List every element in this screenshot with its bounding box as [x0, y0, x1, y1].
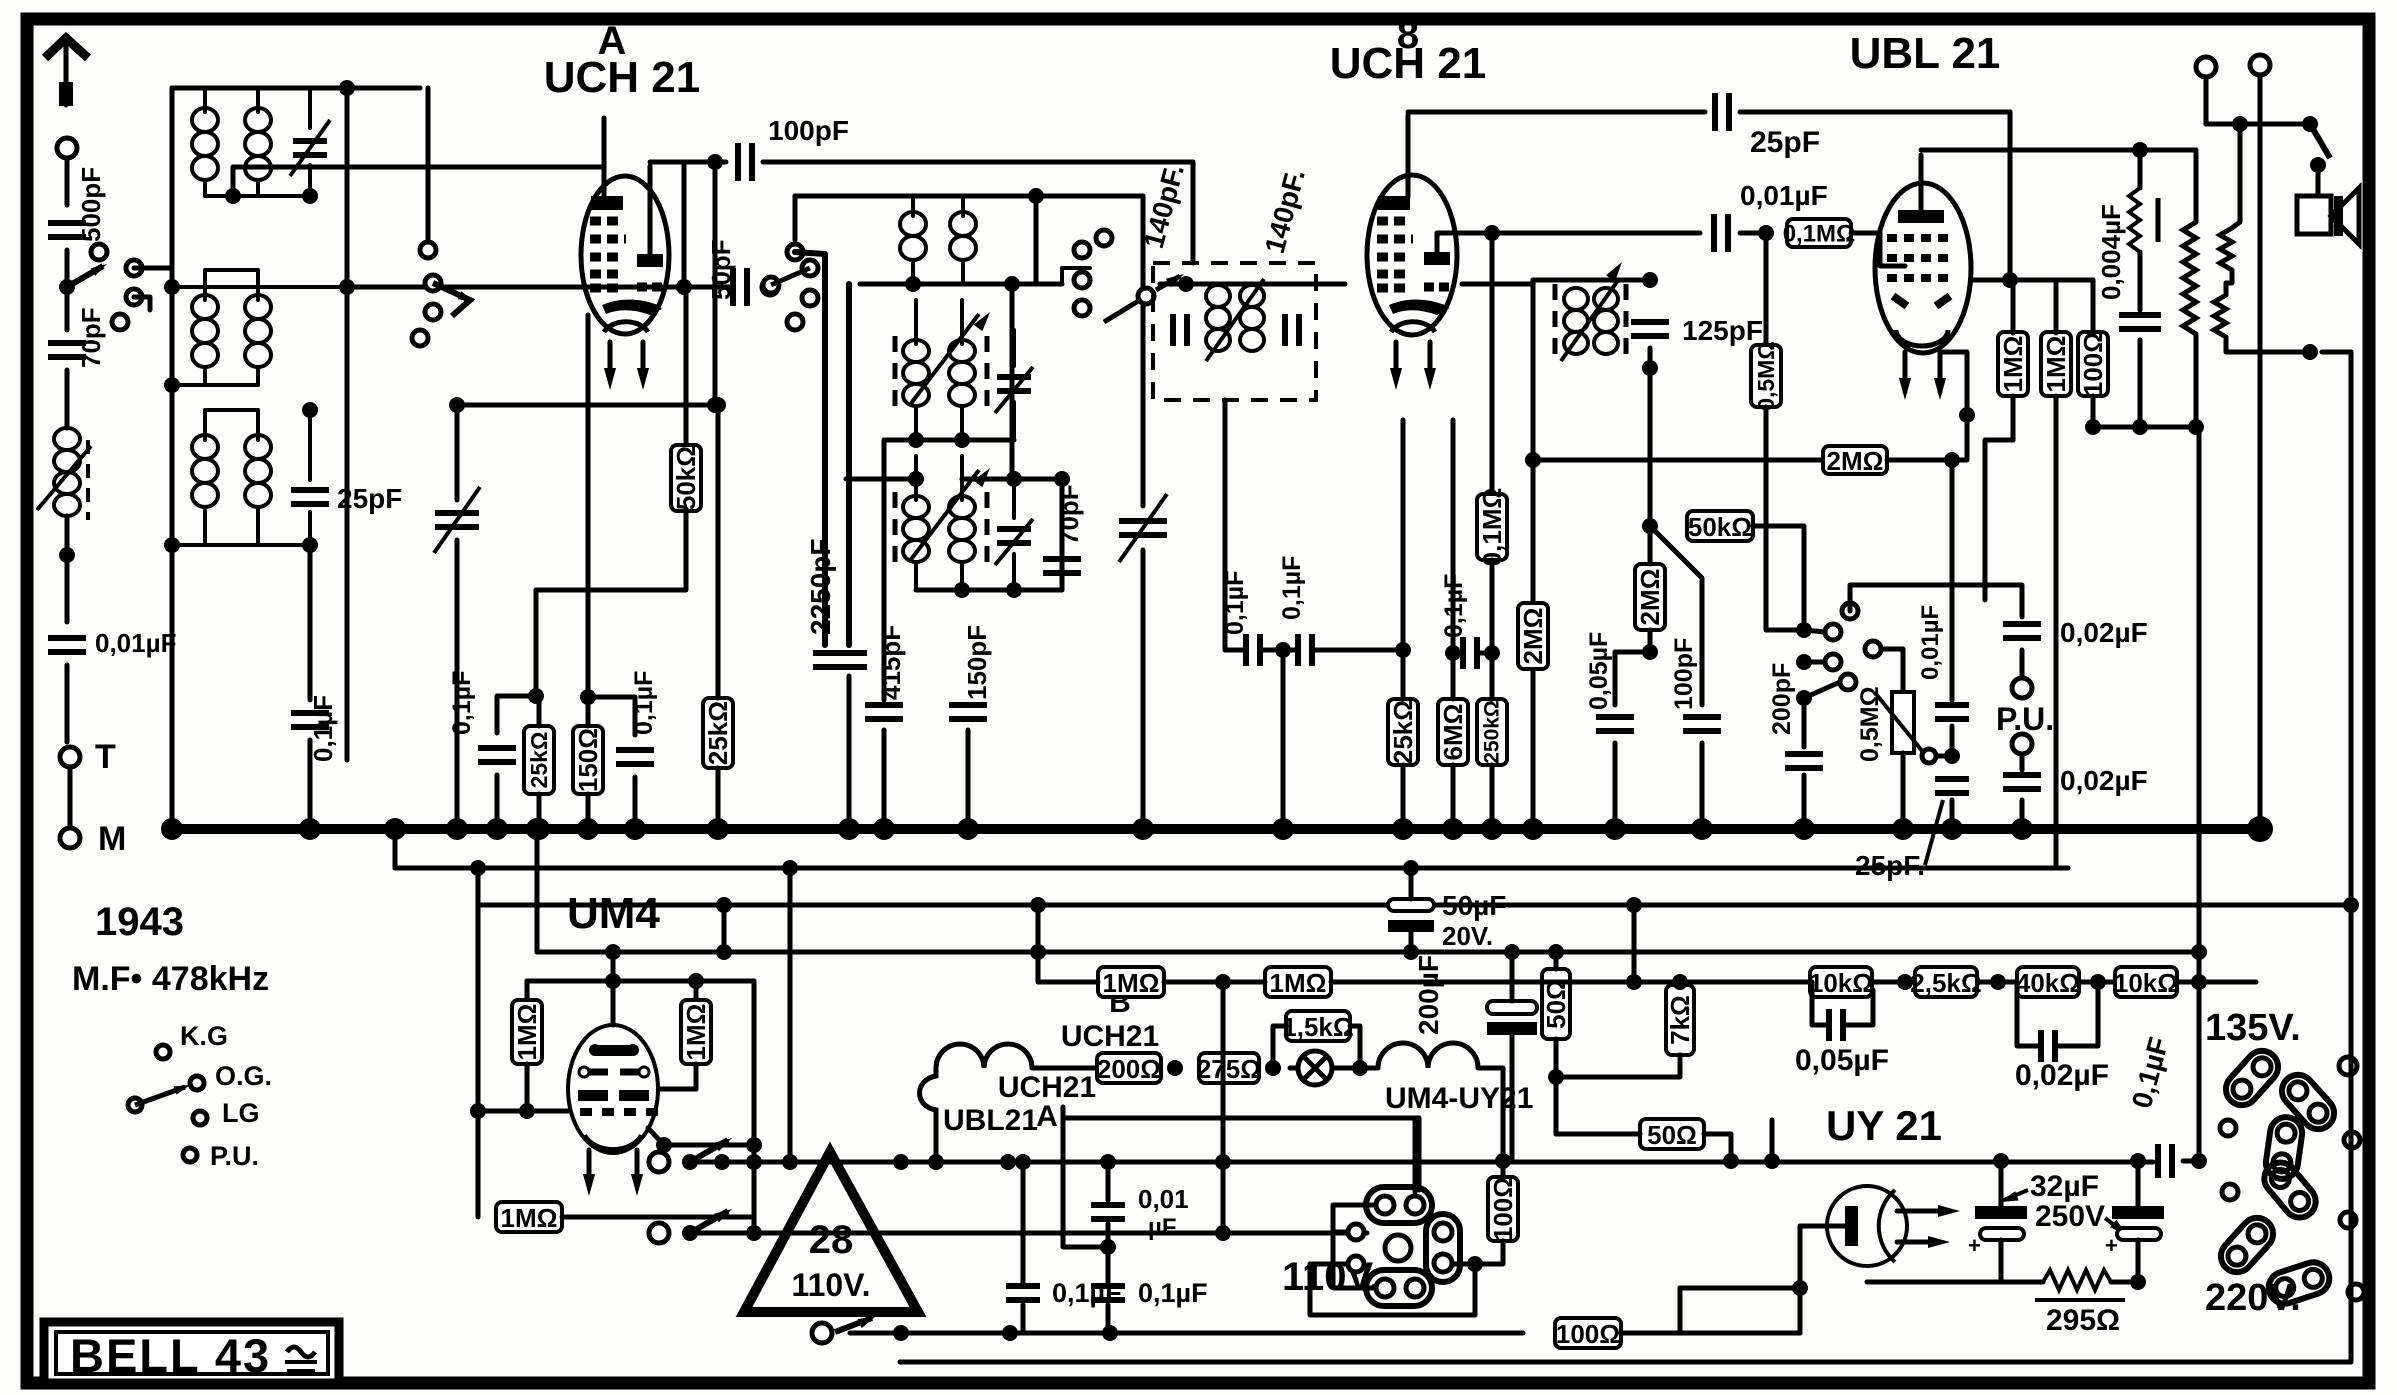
svg-text:UCH21: UCH21 [1061, 1020, 1159, 1053]
wire 004 net [2093, 425, 2140, 430]
tube B arrows [1394, 342, 1399, 380]
wire stub 1772 [1770, 1120, 1775, 1161]
wire osc top2 [1036, 194, 1143, 199]
svg-text:70pF: 70pF [76, 307, 106, 368]
wire heater line [690, 1160, 2153, 1165]
IF2 transformer [1553, 284, 1558, 360]
wire bottom right [900, 1360, 2351, 1365]
wire ant sw [134, 266, 172, 271]
svg-text:0,1MΩ: 0,1MΩ [1783, 221, 1856, 248]
capacitor 0.01uF ant [65, 555, 70, 622]
IF transformer 1 box [1153, 263, 1316, 400]
osc transformer low [893, 492, 898, 568]
svg-text:0,01µF: 0,01µF [1740, 180, 1828, 211]
capacitor 0.1uF B2 [1290, 648, 1298, 653]
terminal M [60, 828, 80, 848]
wire grid B down [1281, 650, 1286, 829]
resistor 25k left [524, 726, 554, 794]
switch wave band [67, 266, 103, 287]
resistor 200 [1097, 1053, 1161, 1083]
inductor ant var [65, 370, 70, 428]
svg-text:1MΩ: 1MΩ [1270, 968, 1327, 998]
capacitor 0.1uF A2 [588, 697, 635, 735]
speaker [2297, 196, 2331, 234]
svg-text:+: + [2105, 1233, 2118, 1258]
capacitor 0.1uF p1 [1021, 1162, 1026, 1282]
capacitor 0.05uF [1615, 652, 1650, 705]
svg-text:0,004µF: 0,004µF [2096, 204, 2126, 300]
capacitor var A [435, 513, 479, 527]
resistor 100ohm [2078, 332, 2108, 396]
wire rail3 [478, 903, 2351, 908]
wire cathode B [1451, 420, 1456, 653]
inductor ant T1 [192, 108, 218, 132]
socket 135V [2219, 1044, 2284, 1111]
tube UM4 [568, 1025, 658, 1153]
resistor 6M [1438, 699, 1468, 765]
svg-text:0,1µF: 0,1µF [1440, 574, 1468, 638]
node IF2 [1642, 360, 1658, 376]
wire var cap line [455, 405, 460, 500]
svg-text:100pF: 100pF [1670, 638, 1698, 710]
svg-text:0,01µF: 0,01µF [1917, 605, 1944, 680]
wire right col [2197, 427, 2202, 952]
svg-text:10kΩ: 10kΩ [2114, 968, 2178, 998]
resistor 0.1M v [1490, 233, 1495, 493]
wire diag [1650, 526, 1702, 705]
resistor 0.5M v [1764, 233, 1769, 346]
svg-text:2250pF: 2250pF [805, 539, 836, 636]
svg-text:150Ω: 150Ω [573, 728, 603, 792]
wire um4 top bracket [527, 979, 754, 984]
wire 32b up [2130, 1153, 2146, 1169]
resistor 10k b [2115, 967, 2177, 997]
warning triangle [744, 1152, 918, 1312]
svg-text:0,5MΩ: 0,5MΩ [1753, 341, 1779, 411]
resistor 295 zigzag [2043, 1270, 2111, 1290]
resistor 50k B [1687, 511, 1753, 541]
capacitor 25pF B [1715, 93, 1729, 131]
svg-text:K.G: K.G [180, 1021, 228, 1051]
svg-text:50Ω: 50Ω [1647, 1120, 1697, 1150]
capacitor trim mid [997, 377, 1031, 391]
node ant [59, 279, 75, 295]
wire pu top [1850, 585, 2022, 617]
switch IF in [1074, 242, 1090, 258]
svg-text:BELL 43: BELL 43 [70, 1329, 271, 1382]
svg-text:110V.: 110V. [792, 1267, 871, 1303]
wire osc top [795, 194, 1036, 199]
svg-text:µF.: µF. [1148, 1214, 1181, 1241]
svg-text:415pF: 415pF [876, 625, 906, 700]
wire 715 to 405 [457, 403, 715, 408]
svg-text:50pF: 50pF [706, 239, 736, 300]
capacitor 70pF [65, 287, 70, 330]
svg-text:A: A [1036, 1100, 1058, 1133]
capacitor 0.1uF right [2158, 1144, 2172, 1178]
heater UM4-UY21 [1378, 1043, 1478, 1068]
wire 2M line [1533, 458, 1824, 463]
terminal PU2 [2012, 734, 2032, 754]
resistor 50 h [1640, 1119, 1704, 1149]
capacitor 0.1uF left [308, 545, 313, 700]
svg-text:25kΩ: 25kΩ [526, 732, 552, 789]
svg-text:0,1µF: 0,1µF [630, 671, 658, 735]
capacitor 0.1uF p2 [1106, 1247, 1111, 1282]
tube A leads [602, 118, 607, 196]
socket 220V [2258, 1156, 2322, 1224]
svg-text:O.G.: O.G. [215, 1061, 272, 1091]
tube UCH21 B [1367, 175, 1457, 335]
svg-text:28: 28 [809, 1218, 854, 1262]
svg-text:UBL21: UBL21 [943, 1104, 1038, 1137]
resistor 40k [2017, 967, 2079, 997]
inductor ant T2 [192, 295, 218, 319]
svg-text:100Ω: 100Ω [1488, 1177, 1518, 1241]
svg-text:1943: 1943 [95, 900, 184, 944]
resistor 50 v [1542, 969, 1570, 1039]
resistor 1.5k bypass [1286, 1011, 1350, 1041]
wire pot top [1881, 649, 1903, 692]
wire 100pF down [1191, 162, 1196, 263]
osc transformer mid [893, 336, 898, 412]
svg-text:1MΩ: 1MΩ [2041, 336, 2071, 393]
wire um4 cathode [648, 1128, 754, 1145]
node osc mid [908, 432, 924, 448]
svg-text:250V: 250V [2035, 1200, 2105, 1233]
svg-text:+: + [1968, 1233, 1981, 1258]
capacitor trimmer ant [308, 88, 312, 128]
capacitor 200pF [1802, 698, 1807, 747]
switch mains2 [649, 1223, 669, 1243]
wire screen [1437, 233, 1492, 258]
terminal PU1 [2012, 678, 2032, 698]
svg-text:0,02µF: 0,02µF [2060, 765, 2148, 796]
tube UBL21 [1875, 183, 1971, 353]
capacitor 125pF [1631, 322, 1669, 336]
node osc1 [905, 276, 921, 292]
resistor 100 bottom [1555, 1318, 1621, 1348]
wire 50k to 25k [536, 509, 686, 696]
wire right net [2183, 1159, 2199, 1164]
resistor 1M um4 left [525, 981, 530, 1000]
capacitor 0.05uF chain [1812, 982, 1825, 1025]
svg-text:50kΩ: 50kΩ [671, 446, 701, 510]
node ant2 [59, 547, 75, 563]
svg-text:P.U.: P.U. [1996, 701, 2054, 737]
node mid [164, 377, 180, 393]
resistor chain 10k [1810, 967, 1872, 997]
wire HT line [1040, 980, 2256, 985]
resistor 2M h [1823, 446, 1887, 474]
terminal T [60, 747, 80, 767]
capacitor 0.1uF A [497, 696, 536, 733]
resistor 1M b [2041, 332, 2071, 396]
IF1 coils [1206, 285, 1230, 307]
capacitor 0.01uF pot [1944, 452, 1960, 468]
capacitor 0.02uF upper [2003, 624, 2041, 638]
wire um4 frame [535, 829, 540, 952]
svg-text:UM4: UM4 [567, 889, 660, 938]
wire IF1 [1160, 282, 1345, 287]
wire t3 bottom [172, 543, 310, 547]
svg-text:2MΩ: 2MΩ [1827, 446, 1884, 476]
phone jack terminals [2196, 57, 2216, 77]
svg-text:50Ω: 50Ω [1541, 979, 1571, 1029]
svg-text:0,1µF: 0,1µF [1278, 556, 1306, 620]
wire rail2 [395, 866, 2068, 871]
resistor 2.5k [1915, 967, 1977, 997]
resistor 275 [1199, 1053, 1259, 1083]
capacitor 32uF b [2112, 1206, 2164, 1219]
svg-text:200µF: 200µF [1413, 955, 1444, 1035]
node grid B [1275, 642, 1291, 658]
wire bias drop [782, 860, 798, 876]
wire uy21 [1800, 1224, 1845, 1229]
switch mains3 [835, 1318, 872, 1332]
wire bottom line [850, 1331, 1523, 1336]
svg-text:UCH 21: UCH 21 [1330, 39, 1487, 88]
wire osc low top [846, 477, 916, 482]
svg-text:200Ω: 200Ω [1097, 1054, 1161, 1084]
wire v715 [713, 162, 718, 405]
node top [339, 80, 355, 96]
svg-text:100pF: 100pF [768, 115, 849, 146]
resistor 150 [573, 726, 603, 794]
wire UCH21A bracket [1063, 1107, 1108, 1247]
svg-text:1MΩ: 1MΩ [512, 1004, 542, 1061]
svg-text:25pF.: 25pF. [1855, 850, 1925, 881]
antenna [45, 38, 88, 58]
svg-text:2MΩ: 2MΩ [1518, 608, 1548, 665]
capacitor 0.01uF [1714, 214, 1728, 252]
svg-text:200pF: 200pF [1768, 663, 1796, 735]
wire speaker return [2349, 352, 2354, 1362]
svg-text:1MΩ: 1MΩ [681, 1004, 711, 1061]
svg-text:25kΩ: 25kΩ [703, 701, 733, 765]
ground bus [172, 824, 2260, 834]
node on 982 [1215, 974, 1231, 990]
wire sw to line [1010, 282, 1062, 287]
switch band2 [426, 88, 431, 242]
wire ubl k line [1940, 352, 1967, 415]
resistor 7k [1666, 985, 1694, 1055]
wire UBL plate [1919, 155, 1924, 210]
svg-text:0,1MΩ: 0,1MΩ [1477, 488, 1507, 567]
svg-text:T: T [95, 738, 116, 776]
output transformer [2183, 222, 2196, 334]
switch mains1 [649, 1152, 669, 1172]
wire heater end [1478, 1068, 1503, 1161]
svg-text:0,01µF: 0,01µF [95, 628, 176, 658]
capacitor 150pF [949, 705, 987, 719]
capacitor trim low [997, 529, 1031, 543]
svg-text:0,1µF: 0,1µF [1138, 1278, 1208, 1308]
svg-text:UCH 21: UCH 21 [544, 53, 701, 102]
svg-text:150pF: 150pF [962, 625, 992, 700]
svg-text:25kΩ: 25kΩ [1388, 700, 1418, 764]
svg-text:295Ω: 295Ω [2046, 1304, 2120, 1337]
um4 grid lead [611, 952, 616, 1025]
capacitor 70pF osc [1043, 559, 1081, 573]
heater UBL21 [920, 1068, 937, 1162]
potentiometer 0.5M [1892, 692, 1914, 753]
inductor ant T3 [192, 435, 218, 459]
capacitor 0.1uF B1 [1225, 648, 1246, 653]
svg-text:1MΩ: 1MΩ [1103, 968, 1160, 998]
capacitor 0.02uF lower [2020, 756, 2025, 770]
terminal antenna [57, 138, 77, 158]
resistor 25k v2 [703, 698, 733, 768]
wire ant frame [170, 88, 175, 829]
wire plug left [1333, 1205, 1376, 1288]
capacitor 100pF2 [1683, 717, 1721, 731]
resistor 250k [1477, 699, 1507, 765]
capacitor 415pF [882, 440, 887, 700]
wire 1M down [2011, 396, 2016, 440]
capacitor 500pF [48, 223, 86, 237]
wire cathode A [586, 315, 591, 697]
svg-text:135V.: 135V. [2205, 1007, 2301, 1049]
svg-text:100Ω: 100Ω [1556, 1319, 1620, 1349]
svg-text:70pF: 70pF [1054, 484, 1084, 545]
svg-text:50kΩ: 50kΩ [1688, 512, 1752, 542]
svg-text:UBL 21: UBL 21 [1850, 29, 2001, 78]
capacitor 0.1uF B3 [1453, 651, 1462, 656]
wire osc top v [1034, 196, 1039, 284]
node osc low [1006, 471, 1022, 487]
capacitor 32uF a [1975, 1206, 2027, 1219]
wire um4 left net [470, 1103, 486, 1119]
node bus1 [299, 818, 321, 840]
lamp [1298, 1051, 1332, 1085]
wire spk [2232, 124, 2240, 228]
wire plate top [233, 165, 604, 170]
svg-text:25pF: 25pF [337, 483, 402, 514]
svg-text:250kΩ: 250kΩ [1481, 700, 1504, 764]
svg-text:1MΩ: 1MΩ [1998, 336, 2028, 393]
switch KG OG LG PU [156, 1045, 170, 1059]
svg-text:220V.: 220V. [2205, 1277, 2301, 1319]
wire IF1 down [1223, 400, 1228, 650]
svg-text:0,1µF: 0,1µF [448, 671, 476, 735]
svg-text:P.U.: P.U. [210, 1141, 259, 1171]
wire 100 down [2091, 396, 2096, 427]
speaker coil [2220, 228, 2232, 270]
wire um4 right vert [752, 981, 757, 1145]
svg-text:500pF: 500pF [76, 167, 106, 242]
svg-text:0,01: 0,01 [1138, 1184, 1189, 1214]
wire 0.01 right [1063, 1116, 1419, 1121]
node frame [339, 279, 355, 295]
capacitor 100pF [715, 160, 726, 165]
wire tube B plate [1406, 115, 1411, 196]
wire plug top [1413, 1118, 1418, 1192]
title box BELL 43 [44, 1322, 339, 1383]
svg-text:0,02µF: 0,02µF [2060, 617, 2148, 648]
resistor 1M a [1998, 332, 2028, 396]
wire IF2 in [1462, 282, 1533, 287]
resistor 2M v1 [1531, 280, 1536, 460]
svg-text:2,5kΩ: 2,5kΩ [1910, 968, 1981, 998]
resistor 2M v2 [1635, 564, 1665, 630]
svg-text:10kΩ: 10kΩ [1809, 968, 1873, 998]
capacitor var tune [1119, 521, 1167, 535]
node 715 [707, 154, 723, 170]
svg-text:0,1µF: 0,1µF [1052, 1278, 1122, 1308]
svg-text:40kΩ: 40kΩ [2016, 968, 2080, 998]
svg-text:M: M [98, 820, 126, 858]
tube UBL21 arrows [1903, 352, 1908, 392]
capacitor 2250pF [846, 284, 852, 645]
wire verticals mid [1221, 982, 1226, 1233]
tube UY21 [1827, 1186, 1907, 1266]
capacitor 0.02uF chain [2017, 982, 2037, 1046]
wire IF2 bottom [1648, 368, 1653, 526]
capacitor 25pF [308, 410, 312, 480]
svg-text:LG: LG [222, 1098, 260, 1128]
wire left col [170, 545, 175, 829]
svg-text:32µF: 32µF [2030, 1170, 2099, 1203]
switch osc [762, 279, 778, 295]
wire sw2 [1215, 1225, 1231, 1241]
svg-text:275Ω: 275Ω [1197, 1054, 1261, 1084]
wire osc sw parallel [795, 252, 825, 645]
svg-text:1,5kΩ: 1,5kΩ [1282, 1012, 1353, 1042]
capacitor 25pF AVC [1935, 779, 1969, 793]
wire grid line gap [580, 285, 686, 290]
resistor 25k B [1395, 642, 1411, 658]
svg-text:0,05µF: 0,05µF [1795, 1044, 1889, 1077]
IF1 capacitor left [1173, 314, 1187, 346]
wire 1288 [1680, 1286, 1800, 1291]
resistor 1M um4 bottom [496, 1202, 562, 1232]
tube UCH21 A [581, 176, 669, 334]
node osc479 [908, 471, 924, 487]
capacitor 50pF [686, 285, 722, 290]
tube A cathode arrows [608, 342, 613, 380]
switch spk [2310, 124, 2330, 158]
svg-text:0,05µF: 0,05µF [1585, 632, 1613, 710]
wire uy k out [1897, 1209, 1940, 1214]
node ubl [1959, 407, 1975, 423]
svg-text:0,1µF: 0,1µF [1221, 571, 1249, 635]
wire rail4 [537, 950, 2203, 955]
svg-text:20V.: 20V. [1442, 921, 1493, 951]
switch osc2 [787, 244, 803, 260]
svg-text:125pF: 125pF [1682, 315, 1763, 346]
IF1 capacitor right [1285, 314, 1299, 346]
svg-text:25pF: 25pF [1750, 126, 1820, 159]
um4 arrows [587, 1150, 592, 1185]
inductor osc T1 [900, 212, 926, 236]
wire osc grid v [1010, 284, 1015, 479]
svg-text:100Ω: 100Ω [2078, 332, 2108, 396]
svg-text:50µF: 50µF [1442, 890, 1506, 921]
node t1 [302, 188, 318, 204]
switch PU [1796, 622, 1812, 638]
resistor 100 vert [1488, 1177, 1518, 1241]
capacitor 50uF [1388, 899, 1434, 911]
wire t1 bottom [205, 194, 310, 198]
resistor 50k [684, 287, 689, 447]
svg-text:2MΩ: 2MΩ [1635, 569, 1665, 626]
resistors 1M power [1098, 967, 1164, 997]
svg-text:1MΩ: 1MΩ [501, 1203, 558, 1233]
capacitor 0.004uF [2138, 150, 2143, 188]
capacitor 0.01uF heater [1106, 1162, 1111, 1200]
svg-text:6MΩ: 6MΩ [1438, 704, 1468, 761]
